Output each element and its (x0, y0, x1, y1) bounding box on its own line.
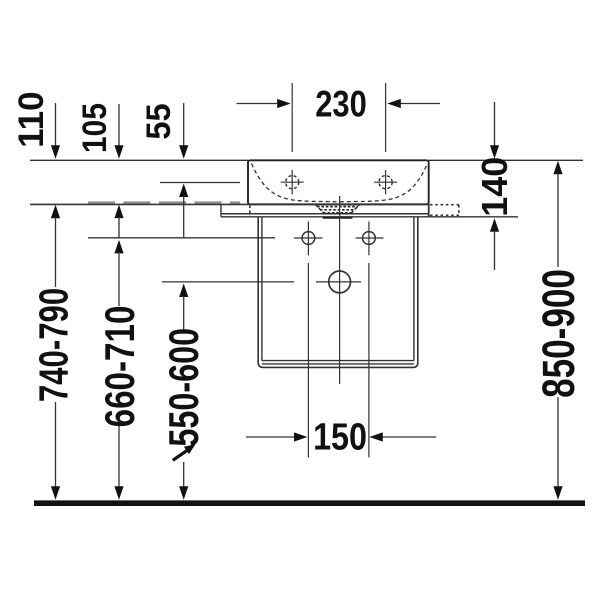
drain hole crosshair (316, 281, 361, 283)
drain hole circle (329, 271, 351, 293)
dim 230 extension line right (385, 83, 387, 152)
svg-text:660-710: 660-710 (96, 306, 142, 428)
svg-text:110: 110 (12, 91, 51, 147)
fixing holes horizontal line (88, 237, 275, 239)
pedestal inner left wall (261, 217, 263, 361)
dim 230 line right + arrow (390, 103, 440, 105)
dim 740-790 shaft + arrows (55, 402, 57, 487)
dim 105 line + arrows (118, 104, 120, 146)
tap center height line 55 (160, 182, 240, 184)
fixing hole left crosshair (294, 237, 323, 239)
svg-text:105: 105 (75, 103, 113, 153)
wall mounting dashed gray line (88, 201, 240, 203)
pedestal outer outline (258, 217, 418, 367)
dim 660-710 arrows + shafts (114, 240, 123, 254)
top rim reference line right (429, 159, 583, 161)
dim 230 line left + arrow (237, 103, 289, 105)
dotted extension box (430, 204, 459, 206)
dim 550-600 arrows + shafts (179, 284, 188, 298)
svg-text:230: 230 (315, 84, 367, 125)
svg-text:850-900: 850-900 (533, 269, 584, 398)
dim 850-900 shaft + arrows (553, 161, 562, 175)
tap hole right crosshair (374, 181, 397, 183)
top rim reference line left (30, 159, 248, 161)
drain dashed trapezoid (316, 205, 360, 214)
pedestal middle bottom line (262, 363, 414, 365)
hidden basin edge dashed (249, 206, 251, 216)
floor line (34, 500, 585, 506)
tap hole left crosshair (281, 181, 304, 183)
svg-text:150: 150 (313, 416, 367, 458)
fixing hole left circle (302, 232, 315, 245)
drain center line (339, 196, 341, 384)
basin inner dashed curve (252, 164, 428, 202)
svg-text:55: 55 (140, 103, 178, 139)
tap hole left dashed circle (286, 176, 299, 189)
small northeast arrow (173, 451, 187, 461)
reference line 140 (221, 216, 518, 218)
tap hole right dashed circle (379, 176, 392, 189)
dim 150 line right + arrow (372, 436, 436, 438)
svg-text:140: 140 (474, 157, 515, 217)
drain under thick line (323, 216, 353, 218)
svg-text:550-600: 550-600 (160, 328, 207, 447)
console shelf right edge (428, 204, 430, 217)
dim 140 line + arrows (494, 102, 496, 146)
dim 55 line + arrows (183, 103, 185, 146)
fixing hole right crosshair (356, 237, 384, 239)
drain height reference line 550-600 (162, 281, 294, 283)
pedestal inner bottom line (262, 360, 414, 362)
pedestal inner right wall (413, 217, 415, 361)
fixing hole right extension line down (368, 263, 370, 458)
dim 110 line + arrows (55, 103, 57, 146)
console shelf bottom line (221, 213, 430, 215)
svg-text:740-790: 740-790 (30, 288, 76, 402)
dim 150 line left + arrow (246, 436, 305, 438)
console shelf left edge (220, 204, 222, 216)
basin bottom line extended (30, 203, 430, 205)
fixing hole right circle (363, 232, 376, 245)
fixing hole left extension line down (307, 263, 309, 458)
washbasin body outline (248, 160, 429, 204)
dim 230 extension line left (291, 83, 293, 152)
